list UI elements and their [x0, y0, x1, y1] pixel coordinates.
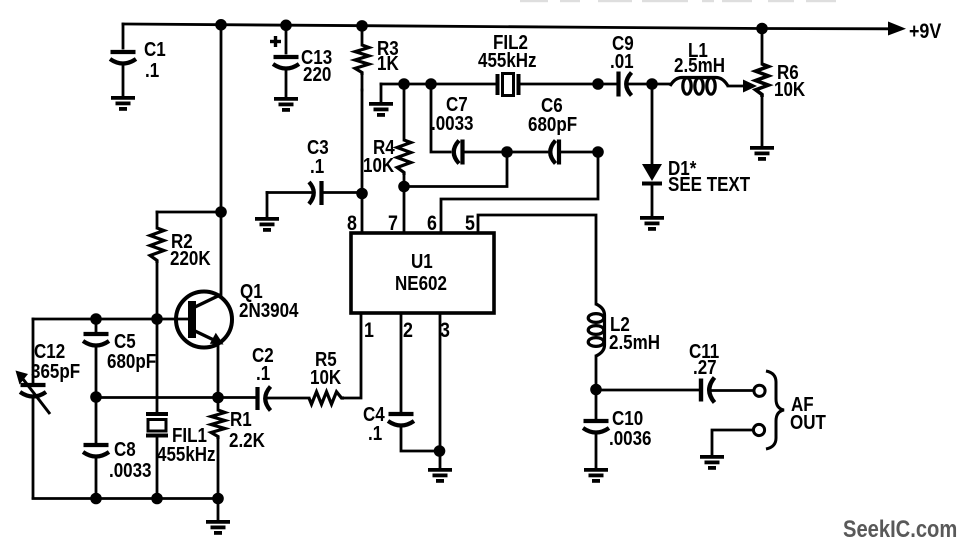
R5 label — [310, 348, 342, 389]
junction C7 branch top — [425, 78, 437, 90]
wire C7 to C6 — [507, 151, 547, 154]
svg-text:OUT: OUT — [790, 411, 826, 434]
wire R5 to pin 1 — [344, 313, 361, 398]
capacitor C8 — [83, 397, 109, 498]
junction pin3-C4 — [434, 445, 446, 457]
variable capacitor C12 — [16, 319, 51, 498]
U1 label — [395, 250, 447, 295]
resistor R1 — [211, 398, 225, 500]
svg-text:1: 1 — [364, 319, 374, 343]
L1 label — [674, 39, 725, 77]
junction base-R2 — [151, 313, 163, 325]
capacitor C2 — [258, 387, 310, 411]
ground below R6 — [750, 148, 774, 159]
svg-text:+9V: +9V — [909, 20, 941, 44]
pin 6 label — [427, 212, 437, 236]
junction rail-collector — [215, 19, 227, 31]
svg-text:2N3904: 2N3904 — [239, 299, 299, 322]
C4 label — [363, 403, 385, 445]
wire node to C9 — [598, 83, 617, 86]
pin 3 label — [440, 319, 450, 343]
FIL1 label — [157, 424, 216, 466]
wire emitter row — [96, 396, 255, 399]
node +9V arrow — [888, 22, 906, 36]
svg-text:680pF: 680pF — [107, 350, 156, 373]
L2 label — [609, 313, 660, 354]
svg-text:10K: 10K — [774, 78, 806, 101]
svg-text:.01: .01 — [610, 50, 634, 73]
resistor R5 — [309, 392, 344, 404]
capacitor C5 — [83, 319, 109, 397]
svg-text:.0036: .0036 — [609, 427, 652, 450]
junction C7-C6 midpoint — [501, 146, 513, 158]
R4 label — [363, 136, 395, 177]
wire Q1 emitter — [217, 343, 220, 397]
svg-text:2: 2 — [403, 319, 413, 343]
junction bottom-C8 — [90, 493, 102, 505]
wire pin 6 to C6 node — [441, 152, 598, 233]
resistor R3 — [355, 25, 369, 90]
ground below C1 — [111, 98, 135, 109]
ground below FIL2 input wire — [369, 84, 393, 115]
ground below AF return — [700, 457, 724, 468]
wire Q1 collector — [220, 25, 223, 296]
op-amp U1 NE602 body — [351, 233, 494, 313]
node +9V label — [909, 20, 941, 44]
wire pin 3 to ground — [439, 313, 442, 469]
capacitor C13 — [273, 25, 299, 98]
svg-text:220: 220 — [303, 63, 331, 86]
svg-text:220K: 220K — [170, 247, 211, 270]
junction C5-C8-emitter row — [90, 391, 102, 403]
svg-text:.0033: .0033 — [109, 459, 152, 482]
wire oscillator bottom — [33, 497, 218, 500]
junction FIL2 output node — [592, 78, 604, 90]
svg-text:.1: .1 — [310, 155, 324, 178]
capacitor C13 polarity + — [270, 36, 281, 47]
pin 2 label — [403, 319, 413, 343]
ground below D1 — [640, 218, 664, 229]
svg-text:8: 8 — [347, 212, 357, 236]
resistor R2 — [150, 212, 221, 319]
pin 1 label — [364, 319, 374, 343]
D1 label — [668, 157, 751, 196]
junction L2-C10-C11 — [590, 384, 602, 396]
ground left of C3 — [255, 193, 279, 230]
svg-text:U1: U1 — [411, 250, 433, 273]
svg-text:7: 7 — [388, 212, 398, 236]
ground below pin 3 — [428, 470, 452, 481]
capacitor C11 — [701, 378, 753, 403]
inductor L1 — [670, 78, 745, 95]
svg-text:5: 5 — [465, 212, 475, 236]
R1 label — [229, 408, 265, 452]
wire C7 branch — [431, 84, 450, 152]
FIL2 label — [478, 31, 537, 72]
wire FIL2 input — [381, 83, 497, 86]
svg-text:10K: 10K — [363, 154, 395, 177]
C9 label — [610, 32, 634, 73]
svg-text:.1: .1 — [145, 59, 159, 82]
R6 label — [774, 61, 806, 101]
C11 label — [689, 340, 719, 379]
junction emitter-R1 — [212, 392, 224, 404]
svg-text:455kHz: 455kHz — [157, 443, 216, 466]
junction R4 top — [398, 78, 410, 90]
svg-text:3: 3 — [440, 319, 450, 343]
svg-text:.1: .1 — [368, 422, 382, 445]
svg-text:365pF: 365pF — [31, 360, 80, 383]
svg-text:.27: .27 — [693, 356, 717, 379]
svg-text:680pF: 680pF — [528, 113, 577, 136]
junction C3-pin8 — [356, 188, 368, 200]
capacitor C6 — [550, 140, 598, 165]
C6 label — [528, 94, 577, 136]
wire FIL2 to C9 — [520, 83, 598, 86]
R3 label — [377, 37, 399, 75]
inductor L2 — [588, 304, 604, 389]
C3 label — [307, 136, 329, 178]
pin 5 label — [465, 212, 475, 236]
svg-text:.0033: .0033 — [431, 112, 474, 135]
svg-text:10K: 10K — [310, 366, 342, 389]
svg-text:C1: C1 — [144, 38, 166, 61]
junction rail-R3 — [356, 20, 368, 32]
capacitor C7 — [454, 140, 507, 165]
terminal AF OUT return — [753, 424, 764, 435]
svg-text:2.5mH: 2.5mH — [609, 331, 660, 354]
svg-text:455kHz: 455kHz — [478, 49, 537, 72]
resistor R4 — [397, 84, 411, 186]
junction C6 right node — [592, 146, 604, 158]
capacitor C1 — [110, 24, 136, 97]
svg-text:C8: C8 — [114, 438, 136, 461]
junction bottom-R1 — [212, 493, 224, 505]
junction base-C5 — [90, 313, 102, 325]
ground below C10 — [584, 470, 608, 481]
capacitor C10 — [583, 389, 609, 469]
capacitor C9 — [619, 72, 671, 97]
wire pin 7 — [403, 186, 406, 233]
wire R3 to pin 8 — [361, 90, 364, 233]
R2 label — [170, 230, 211, 270]
wire +9V rail — [123, 24, 891, 29]
svg-text:2.2K: 2.2K — [229, 429, 265, 452]
junction R2-collector — [215, 206, 227, 218]
svg-text:.1: .1 — [256, 362, 270, 385]
capacitor C3 — [267, 181, 362, 205]
transistor Q1 — [176, 292, 232, 348]
junction C9-D1-L1 — [646, 78, 658, 90]
svg-text:1K: 1K — [377, 52, 399, 75]
svg-text:6: 6 — [427, 212, 437, 236]
potentiometer R6 — [756, 29, 769, 148]
pin 7 label — [388, 212, 398, 236]
junction rail-C13 — [280, 20, 292, 32]
wire C7C6 midpoint to R4 bottom — [404, 152, 507, 187]
wire AF return to ground — [712, 430, 753, 456]
svg-text:NE602: NE602 — [395, 272, 447, 295]
ground oscillator bottom — [206, 498, 230, 533]
ground below C13 — [274, 99, 298, 110]
filter FIL1 — [146, 319, 168, 498]
C10 label — [609, 407, 652, 450]
C8 label — [109, 438, 152, 482]
Q1 label — [239, 280, 299, 322]
svg-text:SEE TEXT: SEE TEXT — [668, 173, 751, 196]
C1 label — [144, 38, 166, 82]
wire pin 5 to L2 — [478, 215, 596, 304]
scan artifact top edge — [520, 0, 836, 2]
svg-text:R1: R1 — [230, 408, 252, 431]
node AF OUT label — [790, 393, 826, 434]
svg-text:2.5mH: 2.5mH — [674, 54, 725, 77]
terminal AF OUT hot — [754, 385, 765, 396]
watermark SeekIC.com — [843, 515, 957, 542]
diode D1 — [642, 84, 662, 217]
C13 label — [301, 46, 332, 86]
wire Q1 base row — [33, 318, 189, 321]
R6 wiper arrow — [743, 80, 757, 93]
C5 label — [107, 330, 156, 373]
filter FIL2 — [498, 74, 519, 96]
C7 label — [431, 93, 474, 135]
C12 label — [31, 340, 80, 383]
junction rail-R6 — [756, 23, 768, 35]
pin 8 label — [347, 212, 357, 236]
junction R4 bottom — [398, 181, 410, 193]
wire L2 node to C11 — [596, 389, 700, 392]
capacitor C4 — [388, 313, 439, 451]
brace AF OUT — [766, 371, 784, 449]
junction bottom-FIL1 — [151, 493, 163, 505]
svg-text:SeekIC.com: SeekIC.com — [843, 515, 957, 542]
C2 label — [252, 344, 274, 385]
